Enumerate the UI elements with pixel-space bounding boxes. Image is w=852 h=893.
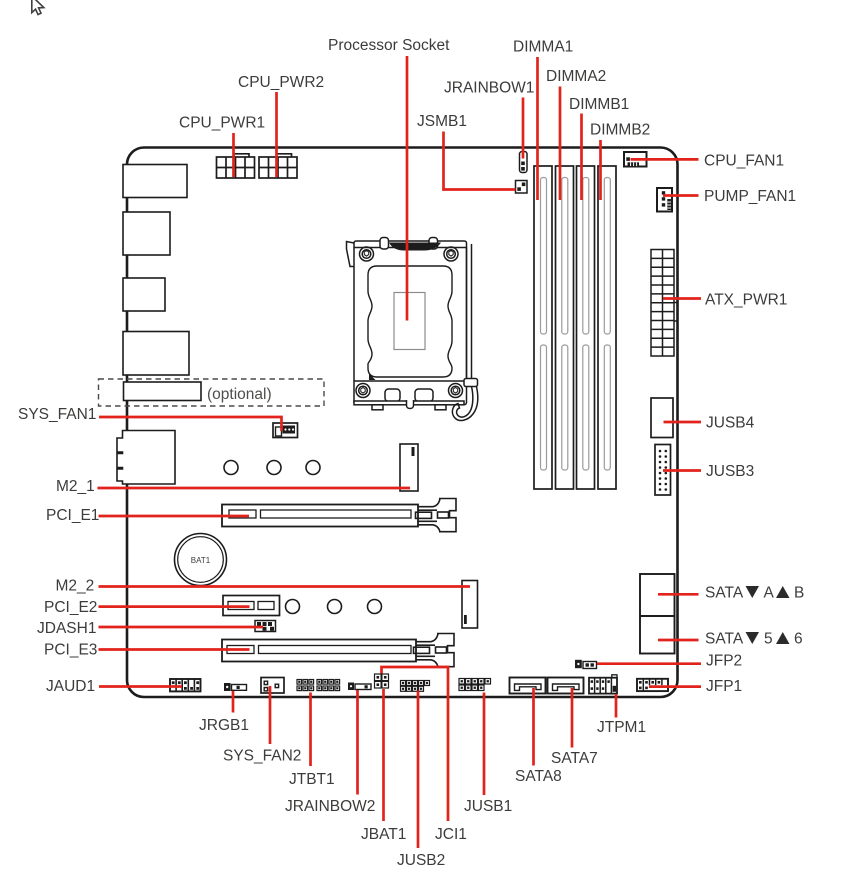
io block 3 bbox=[123, 278, 165, 311]
PCI_E2 slot bbox=[223, 596, 280, 616]
line M2_1 bbox=[98, 487, 411, 490]
svg-text:M2_2: M2_2 bbox=[56, 578, 95, 595]
svg-text:A: A bbox=[764, 585, 775, 602]
line JSMB1 bbox=[444, 132, 516, 190]
line JRGB1 bbox=[232, 691, 235, 713]
cursor bbox=[32, 0, 44, 15]
DIMM slot DIMMB2 bbox=[598, 166, 616, 489]
line JUSB4 bbox=[664, 421, 702, 424]
line PCI_E2 bbox=[99, 605, 250, 608]
connector SYS_FAN1 bbox=[273, 423, 298, 438]
svg-text:JRGB1: JRGB1 bbox=[199, 717, 249, 734]
svg-text:SATA8: SATA8 bbox=[515, 768, 562, 785]
battery BAT1 bbox=[175, 534, 227, 586]
connector JUSB1 bbox=[459, 679, 491, 691]
connector JRGB1 bbox=[224, 683, 247, 691]
line JUSB2 bbox=[417, 691, 420, 849]
io block 1 bbox=[123, 165, 187, 198]
svg-text:DIMMB2: DIMMB2 bbox=[590, 122, 650, 139]
PCI_E2 screw holes bbox=[286, 600, 300, 614]
connector ATX_PWR1 bbox=[651, 250, 678, 357]
M2_2 connector bbox=[462, 581, 478, 629]
connector JSMB1 bbox=[516, 181, 528, 194]
line DIMMA1 bbox=[536, 57, 539, 200]
line JTBT1 bbox=[309, 693, 312, 767]
svg-text:SATA7: SATA7 bbox=[551, 750, 598, 767]
svg-text:CPU_PWR1: CPU_PWR1 bbox=[179, 115, 265, 132]
connector CPU_PWR2 bbox=[259, 154, 297, 178]
line DIMMB2 bbox=[599, 140, 602, 200]
svg-text:PCI_E2: PCI_E2 bbox=[44, 599, 97, 616]
connector SYS_FAN2 bbox=[261, 678, 284, 694]
connector JRAINBOW1 bbox=[520, 152, 528, 173]
svg-text:JRAINBOW2: JRAINBOW2 bbox=[285, 798, 375, 815]
connector CPU_PWR1 bbox=[217, 154, 255, 178]
PCI_E1 slot bbox=[222, 505, 418, 527]
svg-text:JFP2: JFP2 bbox=[706, 653, 742, 670]
connector JFP2 bbox=[575, 660, 597, 669]
processor socket U1 bbox=[347, 238, 478, 421]
line M2_2 bbox=[99, 585, 471, 588]
svg-text:JRAINBOW1: JRAINBOW1 bbox=[444, 80, 534, 97]
line CPU_PWR1 bbox=[232, 133, 235, 177]
PCI_E3 latch bbox=[414, 634, 455, 667]
svg-text:Processor Socket: Processor Socket bbox=[328, 37, 450, 54]
connector CPU_FAN1 bbox=[624, 152, 647, 167]
connector JCI1 bbox=[375, 674, 389, 681]
PLACE_BLACK bbox=[98, 56, 702, 848]
svg-text:JBAT1: JBAT1 bbox=[361, 826, 406, 843]
line SATA8 bbox=[532, 688, 535, 766]
svg-text:B: B bbox=[794, 585, 804, 602]
line SATA 5 6 bbox=[658, 639, 699, 642]
connector SATA8 bbox=[510, 678, 546, 694]
svg-text:CPU_PWR2: CPU_PWR2 bbox=[238, 74, 324, 91]
line Processor Socket bbox=[406, 56, 409, 321]
line PUMP_FAN1 bbox=[663, 194, 699, 197]
connector JAUD1 bbox=[170, 679, 201, 691]
SATA block A B bbox=[640, 574, 675, 616]
line PCI_E1 bbox=[99, 515, 250, 518]
connector JUSB3 bbox=[655, 445, 671, 496]
line SYS_FAN1 bbox=[99, 417, 282, 431]
svg-text:DIMMA2: DIMMA2 bbox=[546, 68, 606, 85]
line ATX_PWR1 bbox=[663, 297, 701, 300]
connector JDASH1 bbox=[255, 621, 276, 632]
svg-text:SYS_FAN1: SYS_FAN1 bbox=[18, 406, 96, 423]
line JTPM1 bbox=[615, 694, 618, 718]
line PCI_E3 bbox=[99, 648, 250, 651]
connector JTBT1 bbox=[297, 680, 340, 691]
line JRAINBOW2 bbox=[356, 690, 359, 795]
line CPU_FAN1 bbox=[631, 158, 699, 161]
DIMM slot DIMMA1 bbox=[534, 166, 552, 489]
svg-text:DIMMB1: DIMMB1 bbox=[569, 96, 629, 113]
svg-text:SYS_FAN2: SYS_FAN2 bbox=[223, 748, 301, 765]
svg-text:JFP1: JFP1 bbox=[706, 678, 742, 695]
svg-text:JTBT1: JTBT1 bbox=[289, 771, 335, 788]
line DIMMA2 bbox=[559, 87, 562, 201]
connector JBAT1 bbox=[375, 681, 389, 688]
svg-text:CPU_FAN1: CPU_FAN1 bbox=[704, 153, 784, 170]
line JAUD1 bbox=[99, 685, 182, 688]
connector PUMP_FAN1 bbox=[657, 188, 672, 212]
svg-text:JUSB4: JUSB4 bbox=[706, 415, 755, 432]
line DIMMB1 bbox=[580, 114, 583, 201]
line SATA A B bbox=[658, 593, 699, 596]
line JFP2 bbox=[597, 662, 701, 665]
connector JFP1 bbox=[637, 679, 668, 691]
svg-text:JTPM1: JTPM1 bbox=[597, 719, 646, 736]
line CPU_PWR2 bbox=[275, 92, 278, 177]
io block 2 bbox=[123, 212, 170, 255]
connector JUSB4 bbox=[651, 398, 673, 438]
svg-text:6: 6 bbox=[794, 631, 803, 648]
io block audio bbox=[117, 431, 175, 485]
svg-text:SATA: SATA bbox=[705, 585, 744, 602]
svg-text:ATX_PWR1: ATX_PWR1 bbox=[705, 292, 787, 309]
line JRAINBOW1 bbox=[522, 98, 525, 159]
svg-text:SATA: SATA bbox=[705, 631, 744, 648]
PCI_E1 latch bbox=[416, 499, 457, 532]
svg-text:(optional): (optional) bbox=[207, 386, 272, 403]
svg-text:JCI1: JCI1 bbox=[435, 826, 467, 843]
svg-text:JSMB1: JSMB1 bbox=[417, 113, 467, 130]
svg-text:JDASH1: JDASH1 bbox=[37, 620, 96, 637]
line JUSB3 bbox=[663, 469, 701, 472]
M2_1 screw holes bbox=[224, 461, 238, 475]
line SYS_FAN2 bbox=[269, 686, 272, 744]
svg-text:BAT1: BAT1 bbox=[191, 556, 211, 565]
svg-text:PCI_E1: PCI_E1 bbox=[46, 507, 99, 524]
connector SATA7 bbox=[548, 678, 584, 694]
svg-text:JUSB3: JUSB3 bbox=[706, 463, 754, 480]
line SATA7 bbox=[571, 688, 574, 748]
connector JRAINBOW2 bbox=[348, 683, 371, 691]
line JDASH1 bbox=[99, 626, 264, 629]
PCI_E3 slot bbox=[222, 640, 416, 662]
DIMM slot DIMMA2 bbox=[556, 166, 574, 489]
svg-text:DIMMA1: DIMMA1 bbox=[513, 39, 573, 56]
svg-text:JUSB2: JUSB2 bbox=[397, 852, 445, 869]
svg-text:M2_1: M2_1 bbox=[56, 478, 95, 495]
line JBAT1 bbox=[382, 689, 385, 821]
line JCI1 bbox=[382, 667, 449, 821]
board outline bbox=[127, 148, 678, 698]
svg-text:PUMP_FAN1: PUMP_FAN1 bbox=[704, 188, 796, 205]
io block optional bbox=[124, 382, 202, 401]
svg-text:JAUD1: JAUD1 bbox=[46, 678, 95, 695]
svg-text:PCI_E3: PCI_E3 bbox=[44, 642, 97, 659]
connector JUSB2 bbox=[401, 681, 430, 692]
line JUSB1 bbox=[483, 693, 486, 796]
line JFP1 bbox=[649, 685, 701, 688]
SATA block 5 6 bbox=[640, 616, 675, 654]
io block 4 bbox=[123, 332, 189, 376]
svg-text:JUSB1: JUSB1 bbox=[464, 798, 512, 815]
DIMM slot DIMMB1 bbox=[577, 166, 595, 489]
svg-text:5: 5 bbox=[764, 631, 773, 648]
connector JTPM1 bbox=[589, 675, 617, 694]
M2_1 connector bbox=[400, 444, 418, 491]
optional dashed box bbox=[99, 379, 325, 406]
